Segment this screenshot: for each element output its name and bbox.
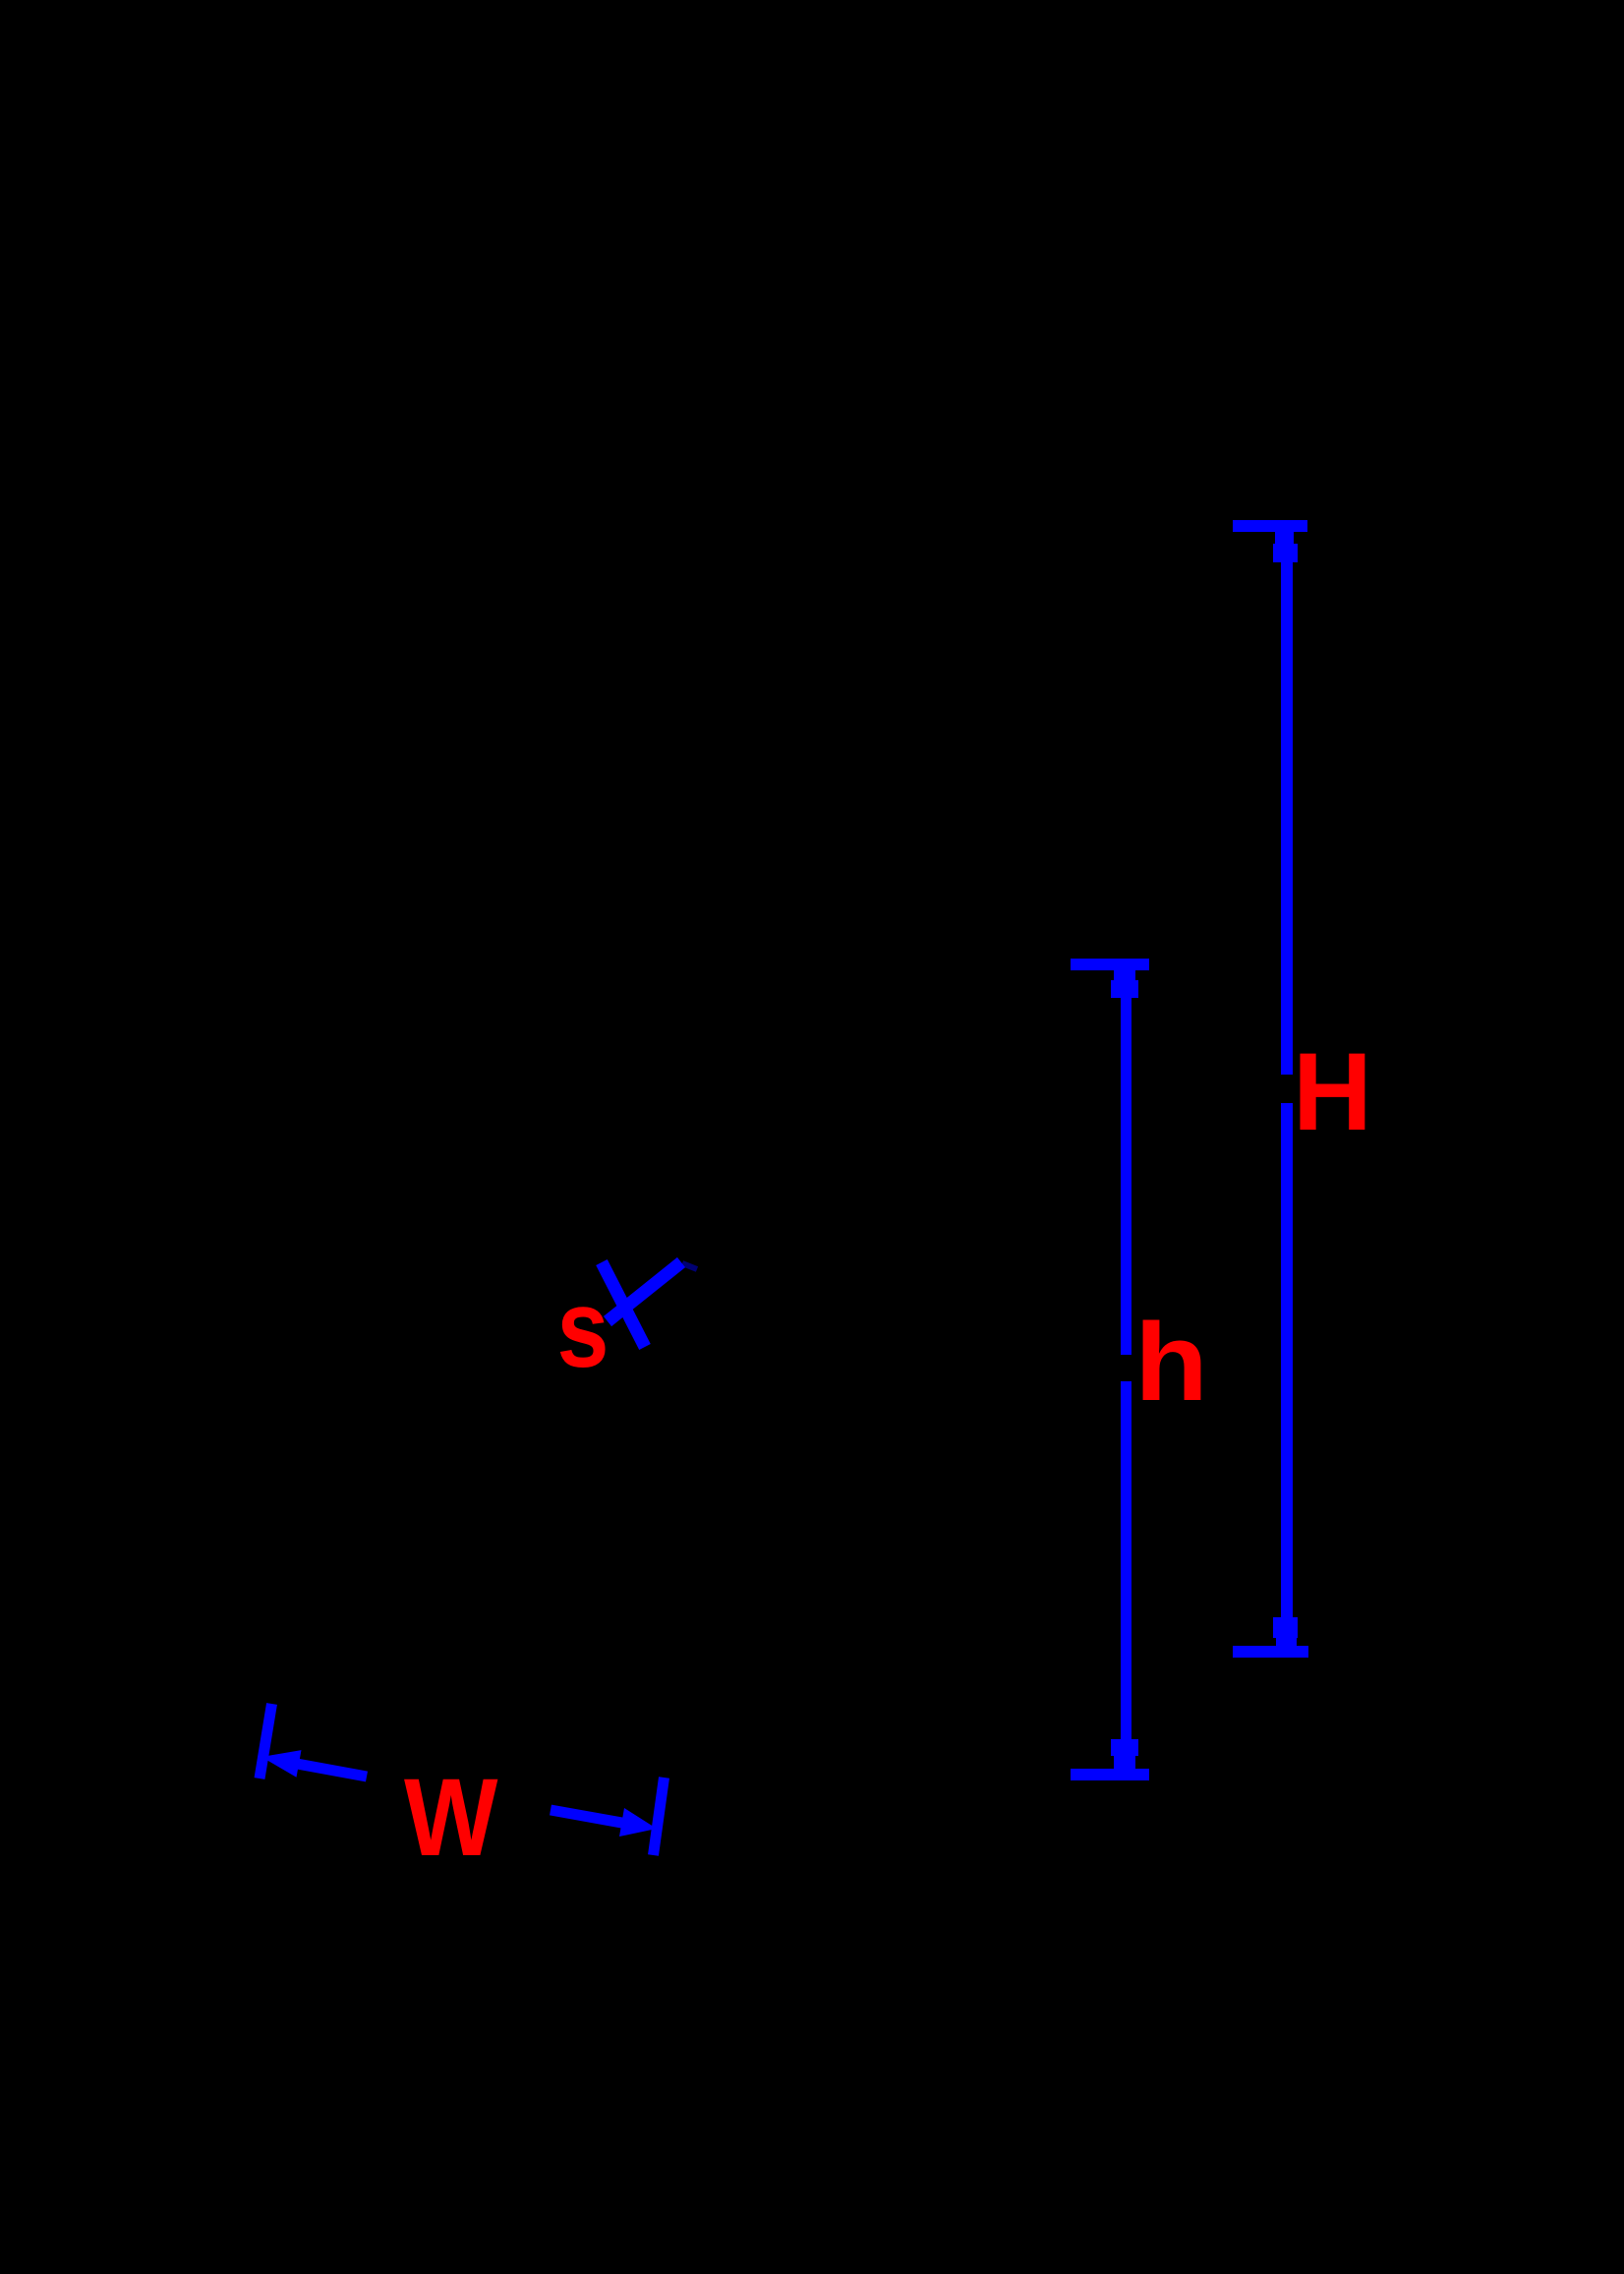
svg-text:h: h — [1134, 1301, 1208, 1424]
W left arrowhead — [261, 1750, 302, 1778]
cross faint tail — [682, 1263, 697, 1269]
h bottom extension cap — [1071, 1769, 1149, 1780]
H line upper segment — [1281, 532, 1293, 1075]
svg-text:W: W — [404, 1756, 498, 1879]
dimension W (bottom, tilted) — [260, 1704, 665, 1855]
dimension H (right vertical) — [1233, 520, 1308, 1658]
h bottom arrowhead — [1111, 1739, 1138, 1756]
dimension h (middle vertical) — [1071, 959, 1149, 1780]
h top arrowhead — [1114, 970, 1135, 980]
cross stroke NW-SE — [602, 1262, 645, 1347]
H top arrowhead — [1275, 532, 1294, 544]
H top extension cap — [1233, 520, 1307, 532]
W left extension cap — [260, 1704, 272, 1778]
W left line segment — [297, 1764, 367, 1777]
cross stroke SW-NE — [608, 1262, 681, 1321]
H line lower segment — [1281, 1103, 1293, 1646]
svg-text:s: s — [557, 1267, 609, 1390]
H bottom extension cap — [1233, 1646, 1308, 1658]
h top extension cap — [1071, 959, 1149, 970]
h line upper segment — [1121, 970, 1131, 1355]
W right extension cap — [654, 1778, 665, 1855]
svg-text:H: H — [1293, 1030, 1372, 1153]
W right arrowhead — [619, 1808, 657, 1837]
W right line segment — [551, 1810, 627, 1824]
point s cross mark — [602, 1262, 697, 1347]
h line lower segment — [1121, 1381, 1131, 1769]
H bottom arrowhead — [1273, 1617, 1298, 1638]
